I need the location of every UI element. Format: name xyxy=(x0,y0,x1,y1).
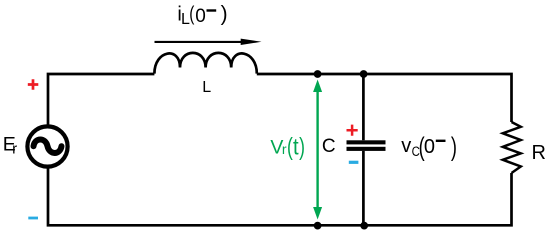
svg-text:t: t xyxy=(293,133,299,160)
svg-text:): ) xyxy=(451,132,457,161)
svg-text:r: r xyxy=(12,141,17,158)
svg-text:0: 0 xyxy=(424,136,435,158)
svg-text:): ) xyxy=(299,132,305,161)
svg-text:R: R xyxy=(532,142,546,164)
svg-text:r: r xyxy=(282,141,287,157)
svg-text:(: ( xyxy=(189,2,194,25)
svg-text:C: C xyxy=(322,136,336,157)
svg-text:0: 0 xyxy=(195,6,206,27)
svg-text:L: L xyxy=(202,79,211,96)
svg-text:): ) xyxy=(221,2,228,25)
svg-text:v: v xyxy=(401,135,411,157)
